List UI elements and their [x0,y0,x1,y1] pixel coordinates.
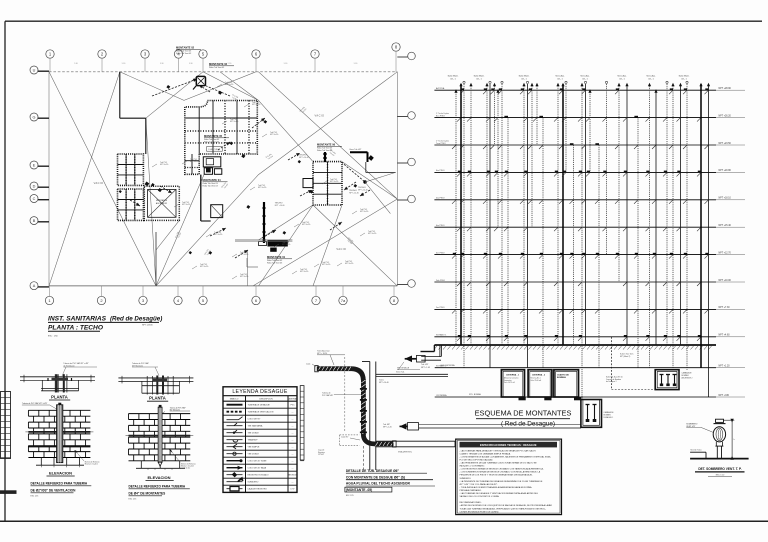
svg-text:CAMARA DE: CAMARA DE [604,411,615,414]
svg-text:CAMARA DE: CAMARA DE [682,372,693,375]
svg-text:ESC 1/25: ESC 1/25 [129,499,137,501]
svg-text:VIGA (VER EST.): VIGA (VER EST.) [398,451,412,454]
brick detail 1 leader texts [22,402,100,465]
svg-text:PVC SAP Ø6": PVC SAP Ø6" [322,394,334,397]
tube detail elbow bottom [363,434,374,444]
svg-text:Mezcla 1:4 e=4cm: Mezcla 1:4 e=4cm [85,464,99,466]
svg-text:Ø3" S=1%: Ø3" S=1% [282,244,291,246]
svg-text:SOTANO 1: SOTANO 1 [436,334,447,337]
svg-text:YEE SIMPLE: YEE SIMPLE [248,447,261,449]
ground hatch band at cistern roof [421,345,717,352]
sump pit below cistern [581,400,614,428]
especificaciones tecnicas box [456,439,562,514]
column grid bubbles bottom row [45,286,398,305]
svg-text:TODAS LAS TUBERIAS INSTALADAS,: TODAS LAS TUBERIAS INSTALADAS, VERIFICAN… [460,507,547,510]
vacio and techo labels [94,114,368,252]
roof plan outline [49,72,397,286]
svg-text:D: D [33,185,36,189]
svg-text:6to PISO: 6to PISO [436,169,445,172]
svg-text:SUMIDERO.: SUMIDERO. [460,478,472,480]
svg-text:ESPECIFICACIONES TECNICAS : DE: ESPECIFICACIONES TECNICAS : DESAGUE [480,443,537,447]
svg-text:5.30: 5.30 [228,63,232,65]
svg-text:(MONTANTE -05): (MONTANTE -05) [346,488,372,492]
svg-text:DETALLE REFUERZO PARA TUBERIA: DETALLE REFUERZO PARA TUBERIA [31,481,88,485]
tube detail captions [345,469,435,497]
svg-text:DETALLE DE TUB. DESAGUE Ø6": DETALLE DE TUB. DESAGUE Ø6" [346,469,400,473]
svg-text:Mezcla 1:4 e=4cm: Mezcla 1:4 e=4cm [181,465,195,467]
svg-text:E: E [33,164,36,168]
svg-text:YEE DOBLE: YEE DOBLE [248,454,260,456]
svg-text:ESC 1:10: ESC 1:10 [716,474,725,476]
bricks detail 1 [28,410,90,457]
svg-text:—: — [292,482,294,484]
svg-text:12"x24": 12"x24" [318,454,325,456]
svg-text:CISTERNA: CISTERNA [436,394,447,397]
svg-text:ASCENSOR 2: ASCENSOR 2 [682,377,693,380]
svg-text:- LOS SOMBREROS SERAN DE BRONC: - LOS SOMBREROS SERAN DE BRONCE CROMADO … [460,471,541,474]
svg-text:CODO DE 45° SUBE: CODO DE 45° SUBE [248,461,268,463]
planta detail 2 beams [118,376,193,395]
svg-text:—: — [292,412,294,414]
riser diagram floor lines [434,87,745,397]
svg-text:A: A [33,284,36,288]
svg-text:NPT +14.40: NPT +14.40 [379,382,389,384]
svg-text:Codo: Codo [306,364,310,366]
svg-text:NPT +1.20: NPT +1.20 [719,366,731,368]
svg-text:Sube Mont.: Sube Mont. [474,75,485,78]
svg-text:VACIADO DE LOS CONCRETOS U OBR: VACIADO DE LOS CONCRETOS U OBRA. [460,495,500,498]
svg-text:- LAS PENDIENTES DE LAS TUBERI: - LAS PENDIENTES DE LAS TUBERIAS COLECTO… [460,462,538,465]
legend table LEYENDA DESAGUE [223,387,297,493]
roof drain symbol with X [193,76,206,89]
svg-text:—: — [292,440,294,442]
svg-text:VACIO: VACIO [315,114,325,118]
svg-text:Sube Mont.: Sube Mont. [519,75,530,78]
svg-text:PREVIA AL TARRAJEO.: PREVIA AL TARRAJEO. [460,489,483,492]
svg-text:NPT +14.40: NPT +14.40 [275,205,285,207]
east block side box [303,179,313,188]
svg-text:U: U [33,69,36,73]
sombrero ground line and step [690,458,749,460]
svg-text:03 - 1: 03 - 1 [476,78,482,80]
svg-text:SUMIDERO: SUMIDERO [248,482,259,484]
svg-text:CISTERNA - 1: CISTERNA - 1 [506,374,520,377]
svg-text:- LAS TUBERIAS DE DESAGUE: - LAS TUBERIAS DE DESAGUE Y VENTILACION … [460,492,539,495]
svg-text:1er PISO: 1er PISO [436,306,445,309]
svg-text:Ø3" S=1%: Ø3" S=1% [182,204,191,206]
svg-text:—: — [292,419,294,421]
svg-text:DET. SOMBRERO VENT. T. P.: DET. SOMBRERO VENT. T. P. [698,467,742,471]
svg-text:03 - 1: 03 - 1 [557,78,563,80]
svg-text:5.30: 5.30 [74,63,78,65]
elevator pump box right [655,370,692,390]
svg-text:7a: 7a [341,298,346,303]
svg-text:NPT + 18.20: NPT + 18.20 [317,353,327,355]
svg-text:de Desague 2: de Desague 2 [606,381,617,383]
column grid bubbles top row [46,43,400,72]
svg-text:03 - 1: 03 - 1 [582,78,588,80]
svg-text:7mo PISO: 7mo PISO [436,143,446,145]
svg-text:3er PISO: 3er PISO [436,251,445,254]
planta detail 1 label [49,394,70,400]
brick detail 2 leader texts [162,406,196,469]
small roof hatch square [211,205,223,218]
svg-text:Ø3" S=1%: Ø3" S=1% [330,181,339,183]
heavy pipe inlet at east block [323,149,396,214]
svg-text:—: — [292,454,294,456]
brick wall elevation detail 2 (montante pipe) [126,405,194,470]
pump outlet pipe lower left with arrow [400,423,582,430]
svg-text:Viene Tub. Ø4": Viene Tub. Ø4" [349,149,361,151]
svg-text:TUBERIA DE VENTILACION: TUBERIA DE VENTILACION [248,411,274,414]
skylight grid block west lower [118,189,144,220]
svg-text:NPT +23.50: NPT +23.50 [719,143,732,145]
svg-text:PENDIENTE DE LOS PISOS Y: PENDIENTE DE LOS PISOS Y TECHOS DEBERA E… [460,474,534,477]
svg-text:5to PISO: 5to PISO [436,197,445,200]
brick detail 2 captions [129,475,190,501]
svg-text:NPT +14.40: NPT +14.40 [299,157,309,159]
svg-text:5.30: 5.30 [160,63,164,65]
svg-text:(Red de Desagüe): (Red de Desagüe) [110,316,162,323]
svg-text:TEE DOBLE: TEE DOBLE [248,433,260,435]
svg-text:8vo PISO: 8vo PISO [436,115,445,117]
svg-text:03 - 1: 03 - 1 [648,78,654,80]
planta detail 2 leader text [132,362,159,375]
svg-text:B: B [33,219,36,223]
tube detail elbow top [352,369,363,380]
svg-text:Rebo Tub Vent 03: Rebo Tub Vent 03 [267,261,282,264]
svg-text:BOMBAS: BOMBAS [557,376,567,379]
dashed pipe from roof drain box [206,86,231,96]
svg-text:Vent. Aux.: Vent. Aux. [580,75,590,78]
svg-text:CAJA DE REGISTRO: CAJA DE REGISTRO [248,488,268,491]
svg-text:ELEVACION: ELEVACION [49,470,72,475]
svg-text:SUB CISTERNA: SUB CISTERNA [441,364,456,367]
svg-text:- LOS MONTANTES DE AGUAS LLUVI: - LOS MONTANTES DE AGUAS LLUVIAMENTE, SA… [460,455,552,458]
svg-text:—: — [292,468,294,470]
montante labels on plan [176,46,342,265]
slope annotations along valleys [175,94,354,256]
machine room boxes [203,157,221,175]
svg-text:NPT 143.80: NPT 143.80 [142,324,154,326]
planta detail 1 beams [20,374,95,392]
svg-text:NPT +20.80: NPT +20.80 [719,170,732,172]
svg-text:Rebo Tub Vent 03: Rebo Tub Vent 03 [209,66,224,69]
svg-text:NPT +15.40: NPT +15.40 [719,225,732,227]
tube detail dashed reference lines [340,357,364,470]
sombrero dimension line [731,420,733,458]
svg-text:MONTANTE 02: MONTANTE 02 [176,46,195,50]
svg-text:Sube Mont.: Sube Mont. [448,75,459,78]
tube detail shaft walls [362,362,455,471]
svg-text:2° Techo Duplex: 2° Techo Duplex [436,140,449,142]
plan dark fixture marks [119,85,357,255]
svg-text:Ø3" S=1%: Ø3" S=1% [270,134,279,136]
svg-text:BRONCE: BRONCE [288,475,297,477]
svg-text:DESAGUE 1: DESAGUE 1 [604,416,614,419]
bricks detail 2 [129,414,191,461]
svg-text:Tuberia de PVC SAP Ø2" ó Ø3": Tuberia de PVC SAP Ø2" ó Ø3" [22,402,48,405]
svg-text:Viene Tub.: Viene Tub. [396,372,405,374]
dashed connections to pump boxes [606,337,655,390]
svg-text:PLANTA: PLANTA [149,396,166,401]
svg-text:—: — [292,447,294,449]
svg-text:TRAMPA P: TRAMPA P [248,439,259,442]
svg-text:NPT +26.20: NPT +26.20 [719,115,732,117]
svg-text:Ø3" Y Ø4" Y DE 1.5% PARA LAS D: Ø3" Y Ø4" Y DE 1.5% PARA LAS DE Ø2". [460,483,499,486]
svg-text:MONTANTE 05: MONTANTE 05 [204,134,223,138]
svg-text:Ø3" S=1%: Ø3" S=1% [252,104,261,106]
svg-text:ESC : 1/50: ESC : 1/50 [48,336,59,338]
riser stack top labels [448,75,690,81]
svg-text:Ø3" S=1%: Ø3" S=1% [200,266,209,268]
svg-text:Rebo Tub Vent 03: Rebo Tub Vent 03 [176,52,191,55]
svg-text:- ANTES DEL MONTADO DE LOS EQU: - ANTES DEL MONTADO DE LOS EQUIPOS DE SA… [460,504,553,507]
svg-text:DE Ø2"/Ø3" DE VENTILACION: DE Ø2"/Ø3" DE VENTILACION [31,488,77,492]
svg-text:PLANTA: PLANTA [51,394,68,399]
svg-text:4to PISO: 4to PISO [436,224,445,227]
svg-text:NPT +18.10: NPT +18.10 [719,198,732,200]
svg-text:Ø3" S=1%: Ø3" S=1% [368,233,377,235]
svg-text:NPT +7.30: NPT +7.30 [719,307,731,309]
svg-text:VER DETALLE: VER DETALLE [397,367,410,370]
esquema de montantes title [475,409,572,428]
svg-text:MATERIAL: MATERIAL [288,397,297,400]
svg-text:CON MONTANTE DE DESGUE Ø6" (S): CON MONTANTE DE DESGUE Ø6" (S) [346,475,405,479]
svg-text:Vent. Aux.: Vent. Aux. [555,75,565,78]
svg-text:PLANTA : TECHO: PLANTA : TECHO [48,324,104,331]
svg-text:RECOMENDACIONES :: RECOMENDACIONES : [460,501,483,504]
left sheet-edge ladder strip [0,392,17,494]
svg-text:CISTERNA - 2: CISTERNA - 2 [532,374,546,377]
svg-text:VACIO: VACIO [336,247,346,251]
svg-text:STD. BOMBA: STD. BOMBA [469,393,481,396]
svg-text:Ø3" S=1%: Ø3" S=1% [302,224,311,226]
skylight grid block west upper [118,154,144,185]
svg-text:Rebo Tub Vent 03: Rebo Tub Vent 03 [203,184,218,187]
svg-text:1 CAJA TUB 4: 1 CAJA TUB 4 [208,148,219,151]
svg-text:5.30: 5.30 [354,63,358,65]
tube detail horizontal top pipe [315,366,352,372]
svg-text:Rebo Tub Vent 03: Rebo Tub Vent 03 [204,140,219,143]
tube detail vertical pipe [360,379,367,435]
top edge dimension texts [74,63,357,65]
svg-text:DETALLE REFUERZO PARA TUBERIA: DETALLE REFUERZO PARA TUBERIA [129,484,186,488]
svg-text:Ø3" S=1%: Ø3" S=1% [345,263,354,265]
svg-text:DE Ø4" DE MONTANTES: DE Ø4" DE MONTANTES [129,491,166,495]
svg-text:Ø3" S=1%: Ø3" S=1% [160,164,169,166]
svg-text:ASCENSOR: ASCENSOR [156,202,168,205]
elevator shaft square with X bracing [144,186,179,220]
svg-text:CODO DE 45° BAJA: CODO DE 45° BAJA [248,467,267,470]
svg-text:- TODA INSTALACION EMPOTRADA: - TODA INSTALACION EMPOTRADA EN ALBANILE… [460,486,533,489]
svg-text:ESQUEMA DE MONTANTES: ESQUEMA DE MONTANTES [475,409,572,418]
svg-text:Ø3" S=1%: Ø3" S=1% [322,264,331,266]
svg-text:TEE SANITARIA: TEE SANITARIA [248,425,264,428]
svg-text:—: — [292,461,294,463]
svg-text:Ø3" S=1%: Ø3" S=1% [190,161,199,163]
svg-text:—: — [292,426,294,428]
svg-text:FLO DE SELLOOPVOND DALIDAD.: FLO DE SELLOOPVOND DALIDAD. [460,459,494,462]
tube detail horizontal bottom pipe [374,441,396,447]
svg-text:Codo 90°: Codo 90° [341,437,349,439]
svg-text:CIONES EN NINGUN PUNTO DE LA R: CIONES EN NINGUN PUNTO DE LA RED. [460,510,500,513]
pump outlet pipe upper left with arrow [396,345,442,374]
svg-text:Ø3" S=1%: Ø3" S=1% [230,121,239,123]
svg-text:( Red de Desague): ( Red de Desague) [501,420,555,427]
svg-text:AZOTEA: AZOTEA [436,87,445,90]
svg-text:AGUA PLUVIAL DEL TECHO ASCENSO: AGUA PLUVIAL DEL TECHO ASCENSOR [346,482,411,486]
brick detail 1 captions [31,470,92,497]
grid bubbles right edge [397,52,415,287]
svg-text:Ø3" S=1%: Ø3" S=1% [240,276,249,278]
heavy montante pipe run bottom-center [235,202,292,286]
cistern room boxes [501,370,581,401]
roof valley diagonal lines [49,72,397,286]
svg-text:G: G [33,116,36,120]
svg-text:03 - 1: 03 - 1 [521,78,527,80]
svg-text:03 - 1: 03 - 1 [619,78,625,80]
svg-text:Ø3" S=1%: Ø3" S=1% [360,211,369,213]
svg-text:Nivel de Techo: Nivel de Techo [691,450,702,452]
svg-text:SIMBOLO: SIMBOLO [230,398,239,400]
svg-text:C: C [33,197,36,201]
svg-text:Ø3" S=1%: Ø3" S=1% [240,254,249,256]
svg-text:- LOS REGISTROS SERAN DE BRONC: - LOS REGISTROS SERAN DE BRONCE CROMADO … [460,468,544,471]
svg-text:NPT +1.20: NPT +1.20 [383,426,392,428]
svg-text:PVC: PVC [290,405,295,407]
tube detail wall hatch ladder [300,386,304,461]
svg-text:MONTANTE 02: MONTANTE 02 [209,62,228,66]
svg-text:MONTANTE 04: MONTANTE 04 [203,178,222,182]
svg-text:Vol = 14.75 m3: Vol = 14.75 m3 [504,382,515,384]
svg-text:NPT +14.40: NPT +14.40 [349,193,359,195]
svg-text:INDIQUE LO CONTRARIO.: INDIQUE LO CONTRARIO. [460,465,486,468]
svg-text:03 - 1: 03 - 1 [681,78,687,80]
svg-text:CUARTO DE: CUARTO DE [557,374,570,377]
svg-text:CUANTO TENGAN CON LINEAMAS SIM: CUANTO TENGAN CON LINEAMAS SIMPLE PESADA… [460,452,512,455]
svg-text:ESC 1/25: ESC 1/25 [346,495,354,497]
brick wall elevation detail 1 (vent pipe) [25,403,93,468]
sombrero detail caption [695,467,745,476]
svg-text:2° Techo Duplex: 2° Techo Duplex [436,113,449,115]
riser vertical pipe stacks [452,81,710,399]
svg-text:VACIO: VACIO [94,181,104,185]
sheet title INST SANITARIAS [48,316,162,327]
sombrero ventilacion detail [686,419,748,460]
svg-text:—: — [292,433,294,435]
svg-text:CODO DE 90°: CODO DE 90° [248,419,261,421]
svg-text:5.30: 5.30 [284,63,288,65]
svg-text:h: h [734,439,735,441]
svg-text:NPT -2.80: NPT -2.80 [719,395,730,397]
svg-text:Ø3" S=1%: Ø3" S=1% [214,234,223,236]
svg-text:MONTANTE 06: MONTANTE 06 [317,143,336,147]
svg-text:- LA PENDIENTE DE TUBERIAS DE: - LA PENDIENTE DE TUBERIAS DE DESAGUE SE… [460,480,543,483]
svg-text:NPT +14.40: NPT +14.40 [358,190,368,192]
svg-text:ESC 1/25: ESC 1/25 [31,496,39,498]
interior walls stepped outline [120,72,211,221]
skylight grid block east MONTANTE-06 [313,162,342,205]
svg-text:2do PISO: 2do PISO [436,280,445,282]
svg-text:Ø2" (Mont 2): Ø2" (Mont 2) [620,355,631,358]
sheet title PLANTA TECHO [48,324,104,337]
roof drainage pipes dashed with arrows [130,79,370,258]
svg-text:TUBERIA DE DESAGUE: TUBERIA DE DESAGUE [248,404,271,407]
svg-text:NPT +28.90: NPT +28.90 [719,88,732,90]
svg-text:C°S°: C°S° [290,489,295,491]
svg-text:Vent. Aux.: Vent. Aux. [646,75,656,78]
svg-text:Ø3" S=1%: Ø3" S=1% [225,84,234,86]
svg-text:- LAS TUBERIAS PARA DESAGUE Y: - LAS TUBERIAS PARA DESAGUE Y VENTILACIO… [460,449,537,452]
svg-text:REGISTRO ROSCADO: REGISTRO ROSCADO [248,474,270,477]
planta detail 2 label [147,396,168,402]
svg-text:MONTANTE: MONTANTE [156,199,168,202]
svg-text:INST. SANITARIAS: INST. SANITARIAS [48,316,107,323]
svg-text:MONTANTE 01: MONTANTE 01 [267,255,286,259]
skylight grid block MONTANTE-05 (L-shaped) [185,101,257,175]
svg-text:LEYENDA DESAGUE: LEYENDA DESAGUE [232,389,287,395]
svg-text:Vol = 25.00 m3: Vol = 25.00 m3 [531,380,542,382]
grid bubbles left column [30,66,49,290]
plan annotation leader texts [152,82,377,279]
tube detail leader annotations [306,350,420,457]
svg-text:5.30: 5.30 [189,63,193,65]
svg-text:NPT +10.00: NPT +10.00 [719,280,732,282]
planta detail 1 leader text [62,362,97,376]
svg-text:Sube Mont.: Sube Mont. [679,75,690,78]
svg-text:DESCRIPCION: DESCRIPCION [259,398,273,400]
extra labels lower floor lines [441,364,482,396]
svg-text:NPT +1.05: NPT +1.05 [421,367,430,369]
svg-text:Ø3" S=1%: Ø3" S=1% [258,187,267,189]
svg-text:5.30: 5.30 [122,63,126,65]
svg-text:Ø3" S=1%: Ø3" S=1% [300,271,309,273]
svg-text:NPT +12.70: NPT +12.70 [719,252,732,254]
svg-text:Vent. Aux.: Vent. Aux. [617,75,627,78]
svg-text:ELEVACION: ELEVACION [147,475,170,480]
svg-text:NPT +4.60: NPT +4.60 [719,335,731,337]
svg-text:03 - 1: 03 - 1 [450,78,456,80]
